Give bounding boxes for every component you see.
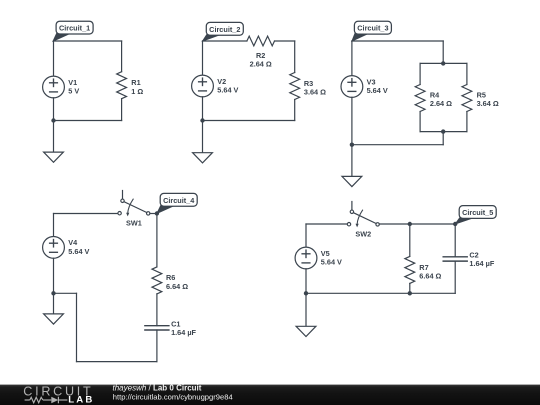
wire <box>419 63 421 84</box>
ground <box>193 121 213 163</box>
wire <box>352 144 443 146</box>
svg-text:R7: R7 <box>419 263 428 272</box>
label R4 2.64 ohm <box>430 91 452 108</box>
wire <box>202 97 204 121</box>
label C1 1.64 uF <box>171 320 196 337</box>
resistor R1 <box>117 72 127 99</box>
wire <box>121 99 123 121</box>
wire <box>202 41 204 75</box>
label R5 3.64 ohm <box>477 91 499 108</box>
wire <box>76 293 78 361</box>
wire <box>53 98 55 121</box>
voltage source V3 <box>341 76 363 98</box>
resistor R7 <box>405 256 415 283</box>
capacitor C2 <box>443 224 467 261</box>
svg-text:2.64 Ω: 2.64 Ω <box>250 59 272 68</box>
switch SW2 <box>347 202 379 239</box>
wire <box>150 213 157 215</box>
CircuitLab logo wordmark LAB <box>68 395 94 405</box>
junction <box>453 222 457 226</box>
wire <box>156 214 158 267</box>
svg-text:R6: R6 <box>166 273 175 282</box>
junction <box>51 118 55 122</box>
svg-text:Circuit_1: Circuit_1 <box>59 24 90 33</box>
wire <box>156 294 158 326</box>
resistor R5 <box>462 85 472 112</box>
resistor R3 <box>290 73 300 100</box>
svg-text:3.64 Ω: 3.64 Ω <box>477 99 499 108</box>
wire <box>294 41 296 73</box>
label C2 1.64 uF <box>469 251 494 268</box>
wire <box>54 120 122 122</box>
capacitor C1 <box>145 326 169 330</box>
node Circuit_1 label callout <box>53 21 93 41</box>
wire <box>294 100 296 121</box>
wire <box>305 224 307 247</box>
svg-text:Circuit_4: Circuit_4 <box>163 196 195 205</box>
resistor R4 <box>415 85 425 112</box>
svg-text:6.64 Ω: 6.64 Ω <box>166 282 188 291</box>
wire <box>352 40 443 42</box>
svg-text:thayeswh / Lab 0 Circuit: thayeswh / Lab 0 Circuit <box>113 384 202 393</box>
wire <box>53 258 55 293</box>
ground <box>44 121 64 163</box>
svg-text:1.64 µF: 1.64 µF <box>469 259 494 268</box>
wire <box>77 361 157 363</box>
svg-text:Circuit_5: Circuit_5 <box>462 208 493 217</box>
wire <box>306 292 455 294</box>
resistor R2 <box>247 36 275 46</box>
label R7 6.64 ohm <box>419 263 441 281</box>
svg-text:5 V: 5 V <box>68 86 79 95</box>
ground <box>296 293 316 336</box>
svg-text:3.64 Ω: 3.64 Ω <box>304 88 326 97</box>
label V3 5.64 V <box>367 77 388 95</box>
voltage source V2 <box>192 75 214 97</box>
wire <box>466 112 468 132</box>
junction <box>441 61 445 65</box>
wire <box>203 120 295 122</box>
svg-text:2.64 Ω: 2.64 Ω <box>430 99 452 108</box>
wire <box>379 223 455 225</box>
wire <box>409 283 411 293</box>
footer url <box>113 393 233 402</box>
node Circuit_2 label callout <box>202 22 243 41</box>
svg-text:5.64 V: 5.64 V <box>367 86 388 95</box>
label R2 2.64 ohm <box>250 51 272 68</box>
voltage source V5 <box>295 247 317 269</box>
svg-text:5.64 V: 5.64 V <box>321 257 342 266</box>
svg-text:1.64 µF: 1.64 µF <box>171 328 196 337</box>
svg-text:R1: R1 <box>131 78 140 87</box>
wire <box>54 292 77 294</box>
wire <box>442 132 444 145</box>
junction <box>155 211 159 215</box>
junction <box>350 143 354 147</box>
svg-text:LAB: LAB <box>68 395 94 405</box>
wire <box>351 97 353 144</box>
svg-text:5.64 V: 5.64 V <box>217 85 238 94</box>
wire <box>203 40 247 42</box>
voltage source V1 <box>43 76 65 98</box>
voltage source V4 <box>43 237 65 259</box>
wire <box>454 261 456 293</box>
junction <box>200 118 204 122</box>
svg-text:1 Ω: 1 Ω <box>131 87 143 96</box>
node Circuit_3 label callout <box>352 21 392 41</box>
wire <box>466 63 468 84</box>
svg-text:Circuit_3: Circuit_3 <box>357 24 388 33</box>
label V1 5 V <box>68 78 79 96</box>
wire <box>54 213 118 215</box>
wire <box>53 214 55 237</box>
wire <box>409 224 411 256</box>
wire <box>442 41 444 63</box>
wire <box>305 269 307 294</box>
svg-text:SW1: SW1 <box>126 218 142 227</box>
CircuitLab logo schematic: wire resistor diode <box>25 397 68 404</box>
label V4 5.64 V <box>68 238 89 256</box>
wire <box>420 131 467 133</box>
svg-text:6.64 Ω: 6.64 Ω <box>419 272 441 281</box>
CircuitLab logo wordmark CIRCUIT <box>23 385 93 399</box>
wire <box>156 330 158 362</box>
wire <box>420 62 467 64</box>
node Circuit_4 label callout <box>157 193 197 213</box>
svg-text:Circuit_2: Circuit_2 <box>209 25 240 34</box>
label V2 5.64 V <box>217 77 238 95</box>
junction <box>51 291 55 295</box>
ground <box>342 145 362 187</box>
junction <box>408 291 412 295</box>
svg-text:5.64 V: 5.64 V <box>68 247 89 256</box>
resistor R6 <box>152 267 162 294</box>
ground <box>44 293 64 324</box>
node Circuit_5 label callout <box>455 206 496 225</box>
svg-text:http://circuitlab.com/cybnugpg: http://circuitlab.com/cybnugpgr9e84 <box>113 393 233 402</box>
svg-text:SW2: SW2 <box>355 229 371 238</box>
wire <box>275 40 295 42</box>
wire <box>53 41 55 76</box>
junction <box>408 222 412 226</box>
wire <box>306 223 347 225</box>
wire <box>121 41 123 72</box>
footer title: thayeswh / Lab 0 Circuit <box>113 384 202 393</box>
label V5 5.64 V <box>321 249 342 267</box>
wire <box>351 41 353 76</box>
label R1 1 ohm <box>131 78 143 96</box>
label R3 3.64 ohm <box>304 79 326 97</box>
junction <box>304 291 308 295</box>
switch SW1 <box>118 191 150 228</box>
wire <box>54 40 122 42</box>
junction <box>441 129 445 133</box>
wire <box>419 112 421 132</box>
label R6 6.64 ohm <box>166 273 188 291</box>
